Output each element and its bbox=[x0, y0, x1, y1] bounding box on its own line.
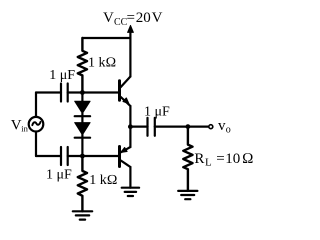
diode D1 bbox=[75, 101, 90, 116]
wire node B to Q2 base bbox=[82, 155, 118, 157]
svg-text:1 kΩ: 1 kΩ bbox=[89, 173, 117, 188]
resistor RL (load) bbox=[183, 127, 192, 191]
ground G3 (below RL) bbox=[178, 191, 197, 199]
capacitor C3 (output 1 uF) bbox=[148, 118, 188, 136]
label Vin bbox=[11, 117, 29, 133]
svg-text:v: v bbox=[218, 118, 226, 134]
transistor Q1 (NPN) bbox=[120, 77, 131, 127]
svg-text:V: V bbox=[103, 10, 114, 26]
svg-text:10: 10 bbox=[225, 151, 240, 167]
svg-text:Ω: Ω bbox=[242, 151, 254, 167]
ground G1 (below R2) bbox=[73, 211, 92, 219]
node B (bottom bias node) bbox=[80, 154, 85, 159]
wire D2 to node B bbox=[81, 135, 83, 157]
transistor Q2 (PNP) bbox=[120, 127, 131, 188]
svg-text:V: V bbox=[11, 117, 22, 133]
node A (top bias node) bbox=[80, 90, 85, 95]
node D (load node) bbox=[186, 124, 191, 129]
svg-text:R: R bbox=[194, 151, 204, 167]
VCC supply arrow bbox=[128, 25, 134, 38]
diode D2 bbox=[75, 123, 90, 138]
svg-text:20: 20 bbox=[136, 10, 151, 26]
svg-text:=: = bbox=[216, 151, 224, 167]
svg-text:=: = bbox=[127, 10, 135, 26]
ground G2 (below Q2 collector) bbox=[122, 188, 139, 196]
capacitor C1 (input top 1 uF) bbox=[36, 84, 82, 102]
svg-text:1 kΩ: 1 kΩ bbox=[88, 56, 116, 71]
svg-text:1 μF: 1 μF bbox=[144, 105, 170, 120]
resistor R1 (1 kOhm top) bbox=[78, 38, 87, 93]
label vo bbox=[218, 118, 231, 135]
wire top rail bbox=[82, 37, 130, 39]
svg-text:1 μF: 1 μF bbox=[46, 167, 72, 182]
svg-text:V: V bbox=[152, 10, 163, 26]
label RL = 10 Ohm bbox=[194, 151, 253, 169]
terminal vo (open circle) bbox=[209, 125, 213, 129]
wire node C to C3 bbox=[130, 125, 147, 127]
node C (output emitter node) bbox=[128, 124, 133, 129]
svg-text:in: in bbox=[21, 124, 28, 134]
svg-text:o: o bbox=[226, 124, 231, 135]
svg-text:1 μF: 1 μF bbox=[49, 68, 75, 83]
capacitor C2 (input bottom 1 uF) bbox=[36, 147, 82, 165]
wire D1 to D2 bbox=[81, 113, 83, 123]
resistor R2 (1 kOhm bottom) bbox=[78, 156, 87, 211]
label VCC = 20 V bbox=[103, 10, 163, 28]
svg-text:L: L bbox=[205, 157, 212, 169]
wire VCC rail to Q1 collector bbox=[129, 38, 131, 77]
source Vin bbox=[29, 93, 44, 157]
wire node A to diode D1 bbox=[81, 93, 83, 102]
wire node A to Q1 base bbox=[82, 91, 118, 93]
wire node D to vo terminal bbox=[188, 125, 208, 127]
